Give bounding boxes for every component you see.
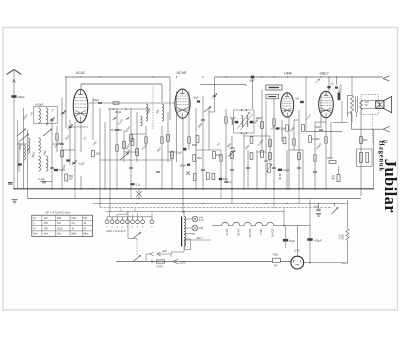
capacitor C21 NSF with ground <box>316 209 320 211</box>
svg-text:W.: W. <box>34 218 37 220</box>
resistor R24 700ohm <box>273 258 281 262</box>
wire to output terminal <box>352 113 384 129</box>
wire horizontal h11 at y=144 <box>52 143 62 145</box>
wire TR2 top link <box>348 95 353 97</box>
svg-text:0,1μF: 0,1μF <box>39 178 46 181</box>
resistor R1 <box>61 150 64 157</box>
capacitor C26 <box>187 164 190 166</box>
coil IF1 extra <box>141 116 143 126</box>
wire vertical v35 at x=257 <box>256 150 258 189</box>
wire vertical v52 at x=331 <box>330 122 332 158</box>
capacitor C28 <box>66 159 69 161</box>
svg-text:A2A: A2A <box>365 101 370 104</box>
resistor R7 <box>167 135 170 142</box>
extra small capacitor bars texture <box>50 167 54 168</box>
junction dot on main bus 1 <box>51 188 53 190</box>
wire horizontal h6 at y=181.5 <box>40 181 52 183</box>
svg-text:A·50pF: A·50pF <box>35 102 44 106</box>
coil L2 winding <box>46 108 48 123</box>
svg-text:UCH41: UCH41 <box>270 229 274 238</box>
wire drop x352 to TR2 <box>351 77 353 96</box>
capacitor C13 L6 <box>327 86 330 88</box>
svg-text:NSF: NSF <box>315 206 320 208</box>
wire below C18 <box>309 241 311 263</box>
resistor R22a divider <box>360 153 363 163</box>
wire dropper top lead <box>183 212 185 217</box>
junction dot on main bus 9 <box>145 188 147 190</box>
capacitor C19 electrolytic <box>283 239 288 242</box>
junction dot on main bus 18 <box>256 188 258 190</box>
svg-text:KW1: KW1 <box>72 218 78 220</box>
junction dropper top <box>183 211 185 213</box>
svg-text:UCH5: UCH5 <box>177 71 187 75</box>
svg-text:1MΩ: 1MΩ <box>230 148 235 150</box>
alignment table frame <box>32 215 93 236</box>
resistor R17 0.2M <box>261 151 264 158</box>
junction dot on main bus 12 <box>182 188 184 190</box>
svg-text:UM4: UM4 <box>284 72 292 76</box>
wire V5 cathode up <box>296 226 298 257</box>
wire horizontal h9 at y=122.6 <box>333 122 348 124</box>
wire vertical v50 at x=326 <box>325 118 327 189</box>
wire drop at x66 <box>65 77 67 128</box>
wire vertical v21 at x=172 <box>171 150 173 189</box>
svg-text:0,1μ: 0,1μ <box>136 185 141 187</box>
svg-text:2F = 472/472 kHz: 2F = 472/472 kHz <box>45 211 71 215</box>
wire hv rail right <box>309 200 311 239</box>
svg-text:220V: 220V <box>180 261 186 265</box>
wire C19 leads <box>285 226 287 249</box>
wire vertical v29 at x=221 <box>220 150 222 189</box>
resistor R22 bias <box>337 175 340 182</box>
antenna coupling arrow <box>13 80 16 83</box>
resistor R26 0.1M <box>283 137 286 144</box>
resistor R19 <box>302 125 305 132</box>
junction dots on top bus <box>65 76 66 77</box>
wire vertical v5 at x=62 <box>61 98 63 189</box>
wire horizontal h1 at y=160 <box>100 159 172 161</box>
wire horizontal h14 at y=152 <box>257 151 266 153</box>
capacitor C7 180pF <box>250 121 254 124</box>
svg-text:1kΩ: 1kΩ <box>96 153 101 156</box>
wire vertical v34 at x=252.5 <box>252 78 254 109</box>
filter box PQ4 lower <box>266 94 279 98</box>
capacitor C23 10kpF <box>54 169 58 171</box>
junction dot on main bus 0 <box>13 188 15 190</box>
junction dot on main bus 24 <box>325 188 327 190</box>
svg-text:700Ω: 700Ω <box>272 254 278 256</box>
wire bottom dc rail <box>341 262 348 264</box>
junction dot on main bus 4 <box>80 188 82 190</box>
IF2 dot d <box>246 132 248 134</box>
capacitor C15 electrolytic body <box>338 93 341 101</box>
wire bank collector <box>106 211 284 213</box>
contact wedge b <box>125 117 130 121</box>
junction dot on main bus 20 <box>273 188 275 190</box>
wire vertical v26 at x=203 <box>202 96 204 189</box>
heater chain wire with chokes <box>212 222 310 225</box>
wire horizontal h8 at y=131.7 <box>306 131 342 133</box>
wire horizontal h4 at y=136 <box>244 135 270 137</box>
wire vertical v2 at x=27.5 <box>27 130 29 199</box>
wire vertical v24 at x=189 <box>188 91 190 150</box>
capacitor C10 <box>224 181 228 182</box>
svg-text:Jubilar: Jubilar <box>381 159 400 213</box>
wire vertical v61 at x=373.7 <box>373 129 375 189</box>
tube V2 UCH5 envelope <box>175 89 190 118</box>
junction dot on main bus 23 <box>314 188 316 190</box>
trimmer CT1 <box>50 119 53 120</box>
antenna A1 mast <box>7 70 22 75</box>
switch S7 dial <box>133 233 141 239</box>
switch S8 tone <box>332 208 339 215</box>
IF2 frame <box>234 110 255 133</box>
svg-text:2kΩ: 2kΩ <box>363 139 368 142</box>
svg-text:30pF: 30pF <box>249 79 255 82</box>
capacitor C16 50pF <box>319 129 323 130</box>
wire vertical v16 at x=131 <box>130 108 132 189</box>
filter box PQ4 upper <box>266 85 282 90</box>
wire choke to rect <box>341 241 348 264</box>
wire horizontal h2 at y=134 <box>131 133 146 135</box>
junction dot on main bus 5 <box>92 188 94 190</box>
wire x17.5 left pair <box>17 120 19 189</box>
switch S1 wave band <box>17 129 26 136</box>
wire vertical v22 at x=176.5 <box>176 91 178 162</box>
wire horizontal h7 at y=182 <box>226 181 232 183</box>
tube V1 UC41 envelope <box>73 89 88 122</box>
wire horizontal h13 at y=152 <box>168 151 177 153</box>
mains contact circle <box>151 260 153 262</box>
resistor R22b divider <box>366 153 369 163</box>
transformer TR2 secondary <box>360 100 363 110</box>
capacitor C4 50pF <box>98 102 102 103</box>
svg-text:UY1N: UY1N <box>237 229 241 236</box>
wire vertical v43 at x=289 <box>288 117 290 189</box>
wire bank to bus4 <box>121 209 135 212</box>
IF2 dot b <box>246 109 248 111</box>
switch S9 AF <box>228 151 235 157</box>
capacitor C25 0.1uF <box>183 148 186 151</box>
capacitor C18 electrolytic <box>307 238 312 241</box>
wire vertical v51 at x=329 <box>328 77 330 91</box>
wire vertical v40 at x=282 <box>281 120 283 142</box>
resistor R14 <box>269 153 272 160</box>
wire S8 stub <box>334 204 336 208</box>
trimmer CT5 <box>61 112 64 113</box>
switch S3 wave band <box>43 129 52 136</box>
wire drop at x170 <box>169 77 171 120</box>
wire dropper bottom lead <box>172 247 185 255</box>
wire top bus left section <box>66 76 170 78</box>
capacitor C1 10kpF antenna <box>11 95 16 98</box>
wire vertical v44 at x=294 <box>293 120 295 150</box>
svg-text:50pF: 50pF <box>315 126 321 129</box>
wire vertical v4 at x=57 <box>56 126 58 152</box>
resistor R30 <box>212 173 215 180</box>
wire vertical v11 at x=100 <box>99 108 101 199</box>
svg-text:50Ω: 50Ω <box>118 130 123 132</box>
wire vertical v15 at x=124 <box>123 130 125 162</box>
resistor R2 <box>92 150 95 157</box>
svg-text:DrW = 4×2+1×2: DrW = 4×2+1×2 <box>107 229 126 233</box>
wire horizontal h0 at y=150 <box>62 149 75 151</box>
resistor R28 <box>193 174 196 181</box>
wire vertical v31 at x=232 <box>231 136 233 189</box>
svg-text:85Ω: 85Ω <box>69 176 74 178</box>
wire vertical v13 at x=110 <box>109 108 111 212</box>
terminal arrow mains upper <box>146 252 171 257</box>
switch bank contact row <box>105 220 109 224</box>
wire top bus right section <box>215 76 384 78</box>
junction dot on main bus 3 <box>74 188 76 190</box>
junction dot on main bus 17 <box>243 188 245 190</box>
transformer TR2 core <box>356 97 358 113</box>
resistor R8 <box>171 152 174 159</box>
crossing mark x <box>186 171 190 175</box>
wire x100 link <box>99 199 101 208</box>
junction dot on main bus 19 <box>265 188 267 190</box>
speaker LS magnet <box>376 101 384 109</box>
capacitor C29 <box>130 183 134 185</box>
wire vertical v3 at x=52 <box>51 118 53 189</box>
tube V5 UY2 envelope <box>291 256 304 269</box>
coil L1 winding <box>39 108 41 123</box>
capacitor C6 50pF <box>235 121 239 124</box>
resistor R5 <box>136 149 139 156</box>
choke L11 100ohm <box>346 229 349 241</box>
svg-text:(NS): (NS) <box>199 228 204 230</box>
wire vertical v32 at x=244 <box>243 133 245 189</box>
left edge cap mark <box>8 183 13 184</box>
junction dot on main bus 21 <box>286 188 288 190</box>
wire vertical v49 at x=321 <box>320 93 322 128</box>
chassis boundary extension <box>372 114 374 144</box>
terminal arrow mains aerial <box>383 76 390 81</box>
wire speaker leads <box>361 101 376 109</box>
dot grid row b <box>125 108 127 110</box>
svg-text:1MΩ: 1MΩ <box>264 161 269 163</box>
wire vertical v7 at x=75 <box>74 122 76 189</box>
svg-text:2,1A: 2,1A <box>199 219 204 222</box>
resistor R31 <box>131 139 134 146</box>
wire vertical v60 at x=361 <box>360 110 362 196</box>
bus return 4 chassis dash <box>100 207 332 209</box>
speaker LS cone <box>384 96 392 112</box>
wire lamp tap 1 <box>184 218 192 220</box>
wire vertical v56 at x=342 <box>341 101 343 123</box>
connector dot b <box>279 178 281 180</box>
wire vertical v46 at x=303 <box>302 150 304 189</box>
wire vertical v59 at x=356.5 <box>356 112 358 117</box>
ground below C21 <box>316 213 321 216</box>
wire vertical v1 at x=23.5 <box>23 108 25 189</box>
resistor R27 1M <box>193 155 196 162</box>
junction uy2 right <box>309 262 311 264</box>
switch S2 wave band <box>20 134 29 141</box>
capacitor C2 <box>60 143 64 144</box>
coil L4 winding <box>39 138 41 153</box>
svg-text:50μF: 50μF <box>289 240 295 243</box>
wire vertical v17 at x=137 <box>136 112 138 162</box>
wire vertical v48 at x=315 <box>314 122 316 189</box>
svg-text:10kpF: 10kpF <box>180 166 187 168</box>
wire R6 row <box>89 102 175 104</box>
wire vertical v8 at x=81 <box>80 123 82 152</box>
wire vertical v30 at x=226 <box>225 109 227 181</box>
wire inner bus mid <box>200 85 246 86</box>
wire horizontal h5 at y=150 <box>289 149 303 151</box>
resistor R4 <box>130 135 133 142</box>
wire vertical v6 at x=70 <box>69 120 71 165</box>
fuse F1 <box>157 260 165 263</box>
svg-text:110V: 110V <box>162 250 168 253</box>
junction dots on return buses <box>99 203 100 204</box>
switch S4 <box>120 153 129 160</box>
svg-text:25kΩ: 25kΩ <box>327 157 333 160</box>
svg-text:30pF: 30pF <box>223 179 229 181</box>
wire horizontal h18 at y=120 <box>294 119 299 121</box>
svg-text:UBL1: UBL1 <box>259 229 263 236</box>
wire vertical v27 at x=209 <box>208 107 210 150</box>
capacitor C11 30pF <box>276 127 280 129</box>
capacitor C27 30pF <box>219 178 222 180</box>
coil L12 tail <box>232 120 233 125</box>
bus chassis main <box>14 188 374 190</box>
junction dot on main bus 6 <box>104 188 106 190</box>
wire vertical v36 at x=262 <box>261 90 263 150</box>
wire vertical v45 at x=299 <box>298 110 300 189</box>
wire tap 150V <box>184 239 211 241</box>
svg-text:1620: 1620 <box>57 229 63 231</box>
svg-text:0,1μF: 0,1μF <box>176 153 183 155</box>
svg-text:0,47A: 0,47A <box>157 265 164 268</box>
resistor R12 50k <box>250 153 253 160</box>
svg-text:50pF: 50pF <box>194 98 200 100</box>
wire mains switch link <box>136 239 138 256</box>
coil L8 osc <box>162 104 164 121</box>
wire vertical v0 at x=19 <box>18 140 20 172</box>
trimmer CT4 <box>213 95 216 96</box>
wire drop x81 to V1 top <box>80 84 82 90</box>
wire vertical v9 at x=81 <box>80 176 82 189</box>
svg-text:+50μF: +50μF <box>314 239 322 243</box>
junction dot on main bus 14 <box>202 188 204 190</box>
wire V5 output right <box>304 262 341 264</box>
junction dot on main bus 22 <box>298 188 300 190</box>
pickup diag mark <box>315 79 320 84</box>
capacitor C8 <box>201 119 205 120</box>
capacitor C24 band <box>18 163 22 165</box>
coil L5 winding <box>39 156 41 171</box>
resistor R20 0.1M <box>309 136 312 143</box>
svg-text:10kpF: 10kpF <box>18 95 26 99</box>
extra small resistor boxes texture <box>56 134 59 140</box>
coil L10 IF2 <box>247 116 248 127</box>
ground under antenna bus <box>12 200 18 203</box>
wire drop x162 <box>161 84 163 102</box>
svg-text:50pF: 50pF <box>94 99 100 102</box>
wire vertical v57 at x=347.5 <box>347 95 349 117</box>
wire inner bus left <box>81 83 162 85</box>
trimmer CT2 <box>68 126 71 127</box>
resistor R16 <box>261 122 264 129</box>
wire vertical v12 at x=105 <box>104 122 106 189</box>
resistor R21 25k <box>329 161 336 164</box>
lamp cross symbol <box>136 189 141 199</box>
wire bank risers <box>110 212 153 217</box>
wire lamp tap 2 <box>184 227 192 229</box>
wire vertical v25 at x=196 <box>195 108 197 189</box>
wire horizontal h17 at y=122 <box>315 121 326 123</box>
wire vertical v47 at x=306 <box>305 77 307 132</box>
dot grid row a <box>113 108 115 110</box>
switch S5 <box>204 107 211 113</box>
wire vertical v39 at x=274 <box>273 98 275 189</box>
connector dot a <box>279 174 281 176</box>
wire dial switch feed <box>128 212 137 239</box>
svg-text:0,1μF: 0,1μF <box>79 164 86 166</box>
wire horizontal h10 at y=144 <box>17 143 28 145</box>
dial lamp LA1 <box>192 216 198 222</box>
tube V4 UBL1 envelope <box>319 91 334 117</box>
svg-text:10kpF: 10kpF <box>283 170 290 172</box>
svg-text:1MΩ: 1MΩ <box>216 154 221 157</box>
resistor R3 <box>123 142 126 149</box>
svg-text:0,1MΩ: 0,1MΩ <box>312 138 319 141</box>
coil L7 osc <box>146 104 148 121</box>
wire vertical v33 at x=248 <box>247 150 249 189</box>
dropper winding loops <box>184 217 186 247</box>
IF2 dot c <box>241 132 243 134</box>
wire mains line <box>116 261 291 263</box>
trimmer CT3 <box>72 162 75 163</box>
wire vertical v41 at x=287 <box>286 150 288 189</box>
wire C21 stub <box>318 204 320 210</box>
coil L9 IF2 <box>242 116 243 127</box>
tube V3 UM4 envelope <box>281 93 294 117</box>
wire filter drop <box>347 200 349 228</box>
svg-text:7kΩ: 7kΩ <box>295 99 299 101</box>
wire vertical v10 at x=93 <box>92 98 94 140</box>
capacitor C3 0.1uF <box>42 182 46 183</box>
wire vertical v55 at x=339 <box>338 90 340 101</box>
svg-text:100Ω: 100Ω <box>343 234 345 240</box>
junction dot on main bus 11 <box>171 188 173 190</box>
IF2 dot a <box>241 109 243 111</box>
wire vertical v14 at x=117 <box>116 108 118 189</box>
resistor R11 <box>250 137 253 144</box>
coil L6b antenna <box>24 145 26 160</box>
wire horizontal h3 at y=150 <box>196 149 221 151</box>
resistor R23 2k <box>360 137 363 144</box>
wire vertical v19 at x=162 <box>161 126 163 189</box>
switch S6 mains <box>133 256 141 262</box>
bus return 2 <box>28 198 362 200</box>
wire vertical v53 at x=338.5 <box>338 166 340 175</box>
terminal arrow pickup <box>383 127 390 132</box>
contact wedge a <box>112 117 117 121</box>
junction dot on main bus 8 <box>130 188 132 190</box>
coil L6 winding <box>46 156 48 171</box>
terminal arrow mains lower <box>173 259 179 264</box>
transformer TR2 primary <box>350 96 353 114</box>
resistor R25 dropper <box>65 174 68 181</box>
wire vertical v28 at x=214.5 <box>214 77 216 112</box>
svg-text:UCH42: UCH42 <box>248 229 252 238</box>
junction dot on main bus 7 <box>116 188 118 190</box>
gang link dashed <box>152 86 154 130</box>
